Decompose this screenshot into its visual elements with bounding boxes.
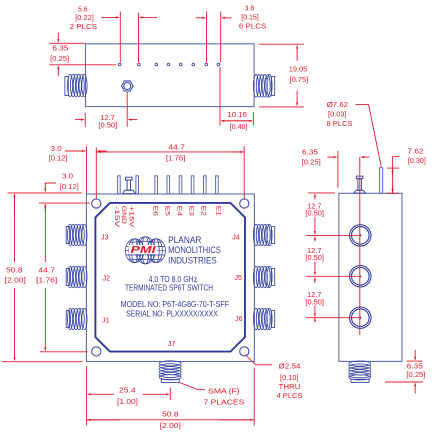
leader SMA (F) xyxy=(180,383,206,390)
front view: mounting hole top-left xyxy=(92,199,101,208)
svg-text:25.4: 25.4 xyxy=(119,385,136,394)
svg-text:7.62: 7.62 xyxy=(408,146,424,155)
svg-text:8 PLCS: 8 PLCS xyxy=(327,119,353,128)
svg-text:[0.50]: [0.50] xyxy=(305,209,324,218)
svg-text:[0.50]: [0.50] xyxy=(305,297,324,306)
svg-text:10.16: 10.16 xyxy=(227,110,247,119)
top view: module body outline xyxy=(86,44,255,107)
top view: SMA connector left xyxy=(65,74,87,96)
svg-text:4 PLCS: 4 PLCS xyxy=(277,391,303,400)
dim 6.35 top left: extension lines and arrows xyxy=(49,42,85,44)
dim 3.0 vertical: bracket and arrows xyxy=(45,183,56,184)
svg-text:[0.25]: [0.25] xyxy=(50,54,69,63)
svg-text:E3: E3 xyxy=(187,206,194,217)
svg-text:SMA (F): SMA (F) xyxy=(208,387,240,396)
svg-text:[1.00]: [1.00] xyxy=(117,397,138,406)
side view: SMA J4 end-on xyxy=(350,225,371,246)
svg-text:3.0: 3.0 xyxy=(62,172,73,181)
svg-text:2 PLCS: 2 PLCS xyxy=(70,22,98,31)
svg-text:J5: J5 xyxy=(234,273,242,282)
svg-text:J3: J3 xyxy=(101,232,109,241)
top view: 8 feed-through pin holes xyxy=(118,63,220,66)
svg-text:[0.50]: [0.50] xyxy=(305,253,324,262)
svg-text:6 PLCS: 6 PLCS xyxy=(239,22,267,31)
svg-text:7 PLACES: 7 PLACES xyxy=(204,398,245,407)
svg-text:[1.76]: [1.76] xyxy=(166,153,186,162)
svg-text:[0.15]: [0.15] xyxy=(241,13,259,22)
svg-text:3.8: 3.8 xyxy=(245,3,255,12)
svg-text:PMI: PMI xyxy=(131,245,156,256)
svg-text:MONOLITHICS: MONOLITHICS xyxy=(168,244,221,255)
front view: mounting hole top-right xyxy=(240,199,249,208)
front view: SMA connector J4 xyxy=(253,224,274,245)
dim 10.16: extension lines and arrows xyxy=(219,67,221,126)
svg-text:[0.12]: [0.12] xyxy=(49,153,68,162)
PMI logo: three wireframe globes xyxy=(125,237,165,264)
dim 12.7 (hex nut): extension lines and arrows xyxy=(84,113,86,127)
dim 12.7 #3 arrows xyxy=(314,278,316,283)
top view: hex nut xyxy=(122,81,134,91)
svg-text:+15V: +15V xyxy=(128,206,135,229)
dim 6.35 side bottom: extension lines and arrows xyxy=(407,360,423,362)
svg-text:J2: J2 xyxy=(102,274,110,283)
front view: SMA connector J7 (bottom) xyxy=(159,361,181,383)
svg-text:[0.12]: [0.12] xyxy=(60,182,79,191)
svg-text:E2: E2 xyxy=(200,206,207,217)
front view: SMA connector J3 xyxy=(66,224,87,245)
svg-text:44.7: 44.7 xyxy=(38,266,55,275)
side view: control pin edge-on xyxy=(380,168,383,194)
dim 44.7 top: extension lines and arrows xyxy=(95,148,97,199)
front view: GND turret terminal xyxy=(123,177,136,193)
dim 6.35 side top: extension line and arrows xyxy=(337,151,339,188)
front view: cover plate with chamfered corners xyxy=(95,203,245,352)
svg-text:J4: J4 xyxy=(232,232,240,241)
dim 12.7 #1 arrows xyxy=(314,194,316,199)
side view: SMA connector bottom xyxy=(349,361,371,383)
svg-text:[0.30]: [0.30] xyxy=(408,156,426,165)
dim 5.6 2 PLCS: extension lines and arrows xyxy=(119,12,121,63)
leader dia 7.62 8 PLCS xyxy=(355,105,381,167)
svg-text:19.05: 19.05 xyxy=(289,65,308,74)
svg-text:[2.00]: [2.00] xyxy=(5,275,26,284)
svg-text:[0.50]: [0.50] xyxy=(98,121,117,130)
svg-text:6.35: 6.35 xyxy=(52,44,68,53)
svg-text:Ø2.54: Ø2.54 xyxy=(279,361,301,370)
svg-text:E6: E6 xyxy=(151,206,158,217)
svg-text:44.7: 44.7 xyxy=(168,142,185,151)
svg-text:MODEL NO: P6T-4G8G-70-T-SFF: MODEL NO: P6T-4G8G-70-T-SFF xyxy=(121,300,230,309)
svg-text:THRU: THRU xyxy=(279,382,301,391)
svg-text:SERIAL NO: PLXXXXX/XXXX: SERIAL NO: PLXXXXX/XXXX xyxy=(126,309,218,318)
dim 50.8 left: extension lines and dim line xyxy=(8,192,82,194)
leader dia 2.54 xyxy=(245,354,272,364)
dim 7.62: bracket, tick and arrows xyxy=(393,157,400,194)
side view: SMA J5 end-on xyxy=(350,266,371,287)
svg-text:[0.03]: [0.03] xyxy=(328,109,347,118)
centerline through J5 xyxy=(306,275,360,277)
svg-text:-15V: -15V xyxy=(113,206,120,229)
svg-text:E5: E5 xyxy=(163,206,170,217)
svg-text:3.0: 3.0 xyxy=(51,144,62,153)
svg-text:6.35: 6.35 xyxy=(302,147,318,156)
svg-text:Ø7.62: Ø7.62 xyxy=(327,100,349,109)
svg-text:[0.10]: [0.10] xyxy=(280,373,299,382)
side view centerline vertical xyxy=(359,157,361,335)
side view: module body outline xyxy=(339,193,402,361)
dim 44.7 left: extension lines and dim line xyxy=(39,202,90,204)
front view: SMA connector J5 xyxy=(253,266,274,287)
svg-text:50.8: 50.8 xyxy=(6,266,23,275)
PMI logo: red PMI wordmark xyxy=(129,245,158,254)
dim 12.7 #2 arrows xyxy=(314,237,316,242)
centerline through J6 xyxy=(306,317,360,319)
svg-text:J7: J7 xyxy=(168,339,176,348)
svg-text:J1: J1 xyxy=(102,315,110,324)
svg-text:[0.75]: [0.75] xyxy=(290,75,309,84)
svg-text:INDUSTRIES: INDUSTRIES xyxy=(168,254,217,265)
front view: DC/control pins row xyxy=(118,176,219,194)
svg-text:GND: GND xyxy=(120,206,127,225)
svg-text:[0.22]: [0.22] xyxy=(75,13,94,22)
svg-text:E4: E4 xyxy=(175,206,182,217)
dim 19.05: extension lines and arrows xyxy=(259,43,304,45)
centerline through J4 xyxy=(306,234,360,236)
front view: mounting hole bottom-left xyxy=(92,347,101,356)
svg-text:TERMINATED SP6T SWITCH: TERMINATED SP6T SWITCH xyxy=(125,283,213,292)
dim 50.8 bottom: extension line and arrows xyxy=(253,368,255,426)
svg-text:[0.25]: [0.25] xyxy=(406,370,425,379)
side view: SMA J6 end-on xyxy=(350,307,371,328)
dim 3.0 horizontal: leader and arrows xyxy=(86,147,88,194)
front view: flange plate outline xyxy=(86,194,254,362)
side view: GND turret terminal xyxy=(354,176,366,193)
dim 25.4 bottom: extension lines and arrows xyxy=(86,366,88,426)
svg-text:[2.00]: [2.00] xyxy=(160,421,181,430)
svg-text:[0.40]: [0.40] xyxy=(230,122,248,131)
front view: SMA connector J1 xyxy=(66,308,87,329)
svg-text:50.8: 50.8 xyxy=(162,410,179,419)
svg-text:[0.25]: [0.25] xyxy=(302,158,321,167)
svg-text:[1.76]: [1.76] xyxy=(36,275,57,284)
svg-text:E1: E1 xyxy=(215,206,222,217)
front view: SMA connector J6 xyxy=(253,308,274,329)
dim 12.7 x3: top edge extension xyxy=(308,192,335,194)
dim 3.8 6 PLCS: extension lines and arrows xyxy=(206,11,208,62)
top view: SMA connector right xyxy=(253,75,274,98)
front view: SMA connector J2 xyxy=(66,266,87,287)
svg-text:J6: J6 xyxy=(235,314,243,323)
front view: mounting hole bottom-right xyxy=(240,347,249,356)
